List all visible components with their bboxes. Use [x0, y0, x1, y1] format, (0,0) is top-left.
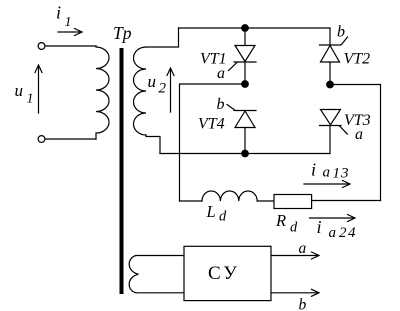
- winding primary: [96, 46, 109, 139]
- node mid-right junction: [326, 81, 334, 89]
- arrow i_a13: [304, 181, 350, 188]
- svg-text:a: a: [329, 225, 337, 241]
- label i_a24: [317, 217, 357, 241]
- svg-text:d: d: [290, 220, 298, 236]
- label a (VT1 gate): [217, 65, 225, 82]
- resistor Rd: [274, 195, 312, 209]
- svg-text:2: 2: [159, 81, 167, 97]
- winding CU sensor: [129, 256, 138, 293]
- label a (output): [299, 240, 307, 257]
- label Tp: [113, 23, 132, 43]
- thyristor VT3: [320, 110, 348, 154]
- label CU: [208, 263, 240, 284]
- wire CU output b: [271, 289, 319, 296]
- label a (VT3 gate): [355, 126, 363, 143]
- label u1: [15, 81, 34, 107]
- svg-text:a: a: [323, 165, 331, 181]
- label VT4: [198, 116, 225, 133]
- svg-text:i: i: [311, 160, 316, 180]
- node top junction: [241, 24, 249, 32]
- svg-text:Tp: Tp: [113, 23, 132, 43]
- thyristor VT4: [227, 105, 256, 154]
- label b (VT4 gate): [217, 96, 225, 113]
- node bottom junction: [241, 150, 249, 158]
- node mid-left junction: [241, 80, 249, 88]
- svg-text:i: i: [56, 3, 61, 23]
- wire top rail: [179, 27, 331, 29]
- svg-text:СУ: СУ: [208, 263, 240, 284]
- label u2: [148, 72, 167, 97]
- svg-text:b: b: [217, 96, 225, 113]
- wire mid-left to down lead: [180, 84, 246, 201]
- svg-text:13: 13: [333, 166, 350, 182]
- svg-text:VT4: VT4: [198, 116, 225, 133]
- label VT2: [344, 51, 371, 68]
- label i_a13: [311, 160, 350, 182]
- arrow i_a24: [310, 215, 356, 222]
- svg-text:u: u: [15, 81, 24, 100]
- wire inductor to resistor: [257, 200, 274, 202]
- label i1: [56, 3, 72, 31]
- wire resistor to right lead: [312, 200, 381, 202]
- thyristor VT1: [229, 28, 257, 84]
- svg-text:d: d: [219, 209, 227, 225]
- svg-text:a: a: [299, 240, 307, 257]
- wire bottom rail: [160, 153, 330, 155]
- svg-text:1: 1: [65, 15, 72, 30]
- svg-text:VT2: VT2: [344, 51, 371, 68]
- wire mid-right to right lead: [330, 85, 381, 201]
- thyristor VT2: [320, 28, 348, 85]
- core bar: [120, 48, 124, 294]
- svg-text:L: L: [206, 202, 216, 221]
- svg-text:u: u: [148, 72, 157, 91]
- svg-text:b: b: [299, 297, 307, 311]
- wire CU bottom-left: [136, 292, 184, 294]
- inductor Ld: [202, 191, 257, 201]
- arrow u2: [167, 68, 174, 112]
- svg-text:4: 4: [348, 225, 356, 241]
- svg-text:b: b: [337, 24, 345, 41]
- wire secondary bottom: [146, 135, 160, 154]
- wire secondary top: [146, 28, 179, 47]
- wire CU output a: [271, 252, 319, 259]
- svg-text:2: 2: [339, 225, 347, 241]
- control unit CU box: [184, 246, 271, 300]
- terminal bottom-left: [38, 136, 45, 143]
- label VT1: [200, 51, 227, 68]
- svg-text:i: i: [317, 217, 322, 237]
- svg-text:1: 1: [27, 92, 34, 107]
- label Rd: [275, 211, 298, 236]
- winding secondary: [133, 47, 146, 135]
- wire primary top: [45, 45, 96, 47]
- wire primary bottom: [45, 138, 96, 140]
- arrow i1: [58, 29, 82, 36]
- label VT3: [344, 112, 371, 129]
- label b (VT2 gate): [337, 24, 345, 41]
- svg-text:a: a: [217, 65, 225, 82]
- label b (output): [299, 297, 307, 311]
- label Ld: [206, 202, 228, 225]
- svg-text:R: R: [275, 211, 286, 230]
- wire CU top-left: [136, 255, 184, 257]
- arrow u1: [35, 65, 42, 113]
- wire to inductor: [180, 200, 203, 202]
- svg-text:a: a: [355, 126, 363, 143]
- terminal top-left: [38, 43, 45, 50]
